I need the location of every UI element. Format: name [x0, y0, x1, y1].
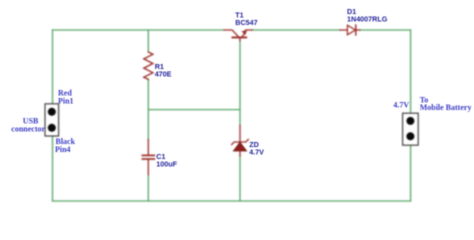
zener ZD triangle (anode, pointing up) [233, 142, 246, 151]
transistor Q1 collector lead [224, 30, 238, 37]
wire top right horizontal (emitter to diode) [252, 29, 340, 31]
diode D1 anode lead [340, 29, 347, 31]
svg-text:100uF: 100uF [156, 160, 177, 169]
wire base vertical (base to middle node) [239, 40, 241, 125]
wire middle horizontal (node R1/C1 to base branch) [148, 109, 240, 111]
diode D1 cathode lead [356, 29, 360, 31]
svg-text:4.7V: 4.7V [249, 147, 264, 156]
diode D1 triangle [347, 25, 355, 35]
wire middle vertical below C1 [147, 175, 149, 202]
capacitor C1 top lead [147, 140, 149, 155]
USB connector J1 pin4 dot [48, 124, 56, 132]
output connector J2 body [403, 113, 419, 145]
zener ZD cathode bar with bent tips [232, 139, 249, 144]
svg-text:470E: 470E [155, 70, 172, 79]
capacitor C1 bottom lead [147, 160, 149, 175]
transistor Q1 base bar [232, 36, 246, 38]
capacitor C1 bottom plate [142, 158, 154, 160]
wire right vertical [410, 30, 412, 201]
svg-text:Pin1: Pin1 [58, 96, 74, 105]
svg-text:1N4007RLG: 1N4007RLG [347, 15, 388, 24]
svg-text:Mobile Battery: Mobile Battery [420, 103, 472, 112]
wire below zener to bottom [239, 156, 241, 201]
wire top left horizontal [53, 29, 225, 31]
capacitor C1 top plate [142, 154, 154, 156]
zener ZD anode lead [239, 151, 241, 156]
USB connector J1 pin1 dot [48, 108, 56, 116]
USB connector J1 body [45, 104, 59, 136]
wire top right horizontal (diode to corner) [360, 29, 411, 31]
transistor Q1 emitter lead [246, 29, 253, 31]
resistor R1 zigzag [144, 52, 153, 79]
transistor Q1 base lead stub [239, 37, 241, 40]
wire middle vertical above R1 [147, 30, 149, 52]
svg-text:connector: connector [11, 125, 45, 134]
wire middle vertical below R1 [147, 79, 149, 140]
output connector J2 top dot [406, 117, 414, 125]
wire left vertical [52, 30, 54, 201]
zener ZD cathode lead [239, 126, 241, 142]
transistor Q1 emitter slant with arrow [242, 32, 246, 37]
wire bottom horizontal [53, 200, 411, 202]
output connector J2 bottom dot [406, 132, 414, 140]
svg-text:Pin4: Pin4 [55, 145, 71, 154]
svg-text:4.7V: 4.7V [393, 100, 409, 109]
svg-text:BC547: BC547 [235, 18, 257, 27]
diode D1 cathode bar [355, 25, 357, 35]
